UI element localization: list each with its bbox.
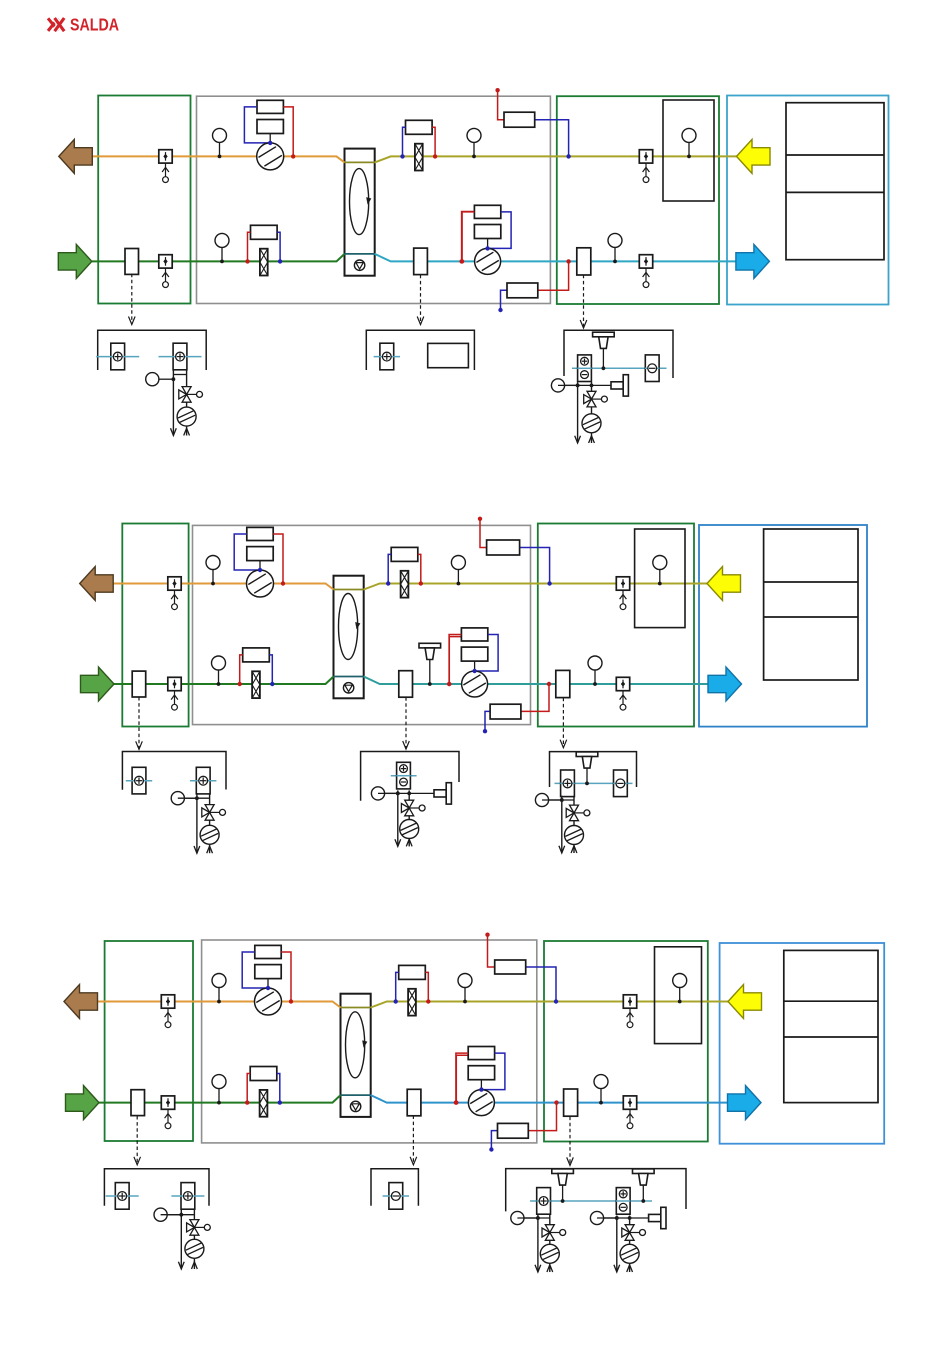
AHU1 unit controls reference arrow (417, 275, 424, 325)
AHU2 outdoor air arrow (green) (81, 667, 115, 701)
AHU3 supply section box (right, green) (544, 941, 708, 1142)
AHU1 duct line inside heat exchanger (top) (345, 161, 375, 163)
AHU2 cooler pipe junction dots (396, 792, 411, 796)
AHU3 supply coil feed wire (red) (456, 1055, 468, 1102)
AHU1 room-side section box (blue) (727, 96, 889, 305)
AHU3 outdoor air temperature sensor (212, 1075, 226, 1105)
AHU1 cooler aux unit (-) (645, 355, 659, 382)
AHU1 supply heating coil with piping (245, 225, 282, 275)
AHU3 duct line inside heat exchanger (bottom) (341, 1094, 371, 1096)
AHU1 supply section duct box (577, 248, 591, 275)
AHU3 heater circuit pipes (161, 1209, 198, 1269)
AHU2 chiller duct sensor (T) (576, 752, 598, 785)
AHU3 heating circuit 3-way valve (542, 1225, 566, 1241)
AHU3 exhaust air duct line (olive) (371, 1002, 729, 1008)
AHU3 extract/exhaust section box (left, green) (105, 941, 193, 1141)
AHU1 control unit (top right) (495, 88, 570, 159)
AHU2 chiller aux unit (-) (613, 770, 627, 797)
AHU3 duct line inside heat exchanger (top) (341, 1007, 371, 1009)
AHU3 supply duct damper box (407, 1089, 421, 1116)
AHU2 cooler circuit bracket (361, 752, 459, 801)
AHU3 extract air arrow (yellow) (728, 985, 762, 1019)
AHU1 cooler circuit supply sensor circle (551, 379, 579, 392)
AHU2 supply section box (right, green) (538, 524, 694, 727)
AHU3 heater circuit 3-way valve (187, 1220, 211, 1236)
AHU2 cooler circuit supply sensor circle (371, 787, 399, 800)
AHU1 cooler circuit pipes (558, 382, 594, 443)
AHU1 duct line inside heat exchanger (bottom) (345, 253, 375, 255)
AHU2 chiller circuit teal line (555, 782, 633, 784)
SALDA logo mark (48, 18, 64, 31)
svg-text:SALDA: SALDA (70, 15, 119, 35)
AHU2 supply fan with speed controller (447, 628, 498, 697)
AHU3 aux unit (-) (383, 1183, 409, 1210)
AHU3 rotor reference arrow (410, 1116, 417, 1165)
AHU3 supply heating coil with piping (245, 1067, 282, 1117)
AHU3 exhaust air temperature sensor (458, 974, 472, 1004)
AHU1 cooler circuit reference arrow (580, 275, 587, 328)
AHU3 heater supply unit (+) (106, 1183, 139, 1210)
AHU3 heating circuit supply sensor circle (511, 1211, 540, 1224)
AHU1 exhaust side coil with piping (400, 120, 437, 170)
AHU3 heater circuit reference arrow (134, 1116, 141, 1165)
AHU1 heater circuit 3-way valve (179, 387, 203, 403)
AHU2 cooler circuit circulation pump (400, 820, 419, 839)
AHU1 extract/exhaust section box (left, green) (98, 96, 190, 304)
AHU2 exhaust air arrow (brown) (80, 567, 114, 601)
AHU1 extract air arrow (yellow) (737, 139, 771, 173)
AHU2 supply coil feed wire (red) (449, 637, 461, 684)
AHU1 outdoor air temperature sensor (215, 233, 229, 263)
AHU2 duct line inside heat exchanger (top) (334, 589, 364, 591)
AHU3 rotary heat exchanger (341, 994, 371, 1117)
AHU2 cooler circuit 3-way valve (401, 800, 425, 816)
AHU3 twin-coil teal line (530, 1200, 652, 1202)
AHU2 extract air arrow (yellow) (707, 567, 741, 601)
AHU1 room unit panel (3 sections) (786, 103, 884, 260)
AHU1 cooler supply unit (+/-) (577, 355, 591, 382)
AHU2 outdoor air duct line (green) (114, 677, 334, 685)
AHU3 supply section damper (top) (623, 995, 636, 1028)
AHU1 extract air temperature sensor (213, 128, 227, 158)
AHU3 cooling circuit pipes (597, 1216, 633, 1273)
AHU1 outdoor intake box (125, 249, 139, 275)
AHU2 chiller circuit bracket (550, 752, 637, 787)
AHU2 chiller circuit pipes (542, 796, 577, 853)
AHU3 cooling circuit 3-way valve (622, 1225, 646, 1241)
AHU2 chiller circuit circulation pump (565, 826, 584, 845)
AHU3 heater circuit supply sensor circle (154, 1208, 183, 1221)
AHU2 extract air duct line (orange, to exhaust) (114, 584, 334, 590)
AHU2 supply section damper (top) (616, 577, 629, 610)
AHU2 supply heating coil with piping (238, 648, 275, 698)
AHU2 control unit (bottom right) (483, 682, 551, 734)
AHU1 cooler circuit teal line (572, 367, 667, 369)
AHU3 duct sensor T1 (552, 1169, 574, 1203)
AHU2 heater circuit reference arrow (136, 697, 143, 749)
AHU2 exhaust air duct line (olive) (364, 584, 708, 590)
AHU3 supply air temperature sensor (594, 1075, 608, 1105)
AHU1 supply duct damper box (414, 248, 428, 275)
AHU2 supply air temperature sensor (588, 656, 602, 686)
AHU1 extract room sensor box (663, 100, 714, 201)
AHU3 cooling circuit supply sensor circle (590, 1211, 618, 1224)
AHU2 exhaust side coil with piping (386, 547, 423, 597)
AHU1 intake damper actuator (159, 255, 172, 288)
AHU1 supply section damper (bottom) (639, 255, 652, 288)
AHU3 heater return unit (+) (171, 1183, 204, 1210)
AHU1 heater circuit pipes (171, 370, 190, 436)
AHU3 intake damper actuator (161, 1096, 174, 1129)
AHU3 control unit (bottom right) (489, 1100, 559, 1151)
AHU3 extract air temperature sensor (212, 974, 226, 1004)
AHU1 extract fan with speed controller (244, 100, 295, 170)
AHU2 supply duct temperature sensor (T) (419, 643, 441, 686)
AHU3 heating pipe junction dot (536, 1216, 540, 1220)
AHU2 heater circuit supply sensor circle (171, 792, 199, 805)
AHU3 twin-coil circuit reference arrow (567, 1117, 574, 1166)
AHU1 rotor controller box (428, 343, 469, 367)
AHU1 extract air duct line (orange, to exhaust) (92, 156, 344, 162)
AHU1 outdoor air duct line (green) (92, 254, 345, 262)
AHU2 chiller pipe junction dot (560, 798, 564, 802)
AHU3 extract room sensor box (655, 947, 702, 1044)
AHU2 outdoor intake box (132, 671, 146, 697)
AHU3 heating circuit pipes (517, 1215, 552, 1272)
AHU1 cooler pipe junction dots (576, 384, 594, 388)
AHU1 exhaust damper actuator (159, 150, 172, 183)
AHU1 unit controls bracket (366, 330, 474, 370)
AHU2 cooler circuit teal line (391, 775, 417, 777)
AHU2 extract air temperature sensor (206, 556, 220, 586)
AHU2 supply duct damper box (399, 671, 413, 698)
AHU3 outdoor air duct line (green) (99, 1095, 341, 1103)
AHU1 exhaust air arrow (brown) (59, 139, 93, 173)
AHU1 supply air duct line (teal) (375, 254, 737, 262)
AHU1 supply air temperature sensor (608, 233, 622, 263)
AHU2 supply air duct line (teal) (364, 677, 708, 685)
AHU2 chiller circuit supply sensor circle (535, 793, 563, 806)
AHU3 cooling immersion sensor (630, 1207, 666, 1228)
AHU3 supply fan with speed controller (454, 1047, 505, 1116)
AHU2 rotary heat exchanger (334, 576, 364, 699)
AHU2 duct line inside heat exchanger (bottom) (334, 676, 364, 678)
AHU1 cooler duct sensor (T) (593, 332, 615, 370)
AHU1 heater circuit supply sensor circle (146, 373, 176, 386)
AHU2 room-side section box (blue) (699, 525, 867, 727)
AHU2 extract/exhaust section box (left, green) (122, 524, 188, 727)
AHU3 twin-coil circuit bracket (506, 1169, 686, 1212)
AHU3 room-side section box (blue) (720, 943, 885, 1144)
AHU2 AHU unit casing box (gray) (193, 525, 531, 724)
AHU2 cooler immersion sensor (409, 783, 451, 804)
AHU3 control unit (top right) (485, 933, 558, 1004)
AHU2 exhaust air temperature sensor (451, 556, 465, 586)
AHU3 exhaust side coil with piping (394, 965, 431, 1015)
AHU2 chiller supply unit (+) (560, 770, 574, 797)
AHU2 supply section duct box (556, 670, 570, 697)
AHU1 heater circuit circulation pump (177, 407, 196, 426)
AHU1 supply fan with speed controller (460, 205, 511, 274)
AHU1 cooler immersion sensor (592, 375, 629, 396)
AHU3 extract air duct line (orange, to exhaust) (98, 1002, 341, 1008)
AHU1 outdoor air arrow (green) (58, 244, 92, 278)
AHU3 room unit panel (3 sections) (784, 950, 878, 1102)
AHU2 exhaust damper actuator (168, 577, 181, 610)
AHU3 exhaust damper actuator (161, 995, 174, 1028)
AHU1 supply air arrow (cyan) (736, 244, 770, 278)
AHU1 rotor control unit (+) (374, 343, 400, 370)
AHU2 intake damper actuator (168, 677, 181, 710)
AHU3 AHU unit casing box (gray) (202, 940, 537, 1143)
AHU3 cooling unit (+/-) (616, 1188, 630, 1215)
AHU1 exhaust air duct line (olive) (375, 156, 737, 162)
AHU2 chiller circuit reference arrow (560, 698, 567, 748)
AHU2 cooler supply unit (+/-) (396, 762, 410, 789)
AHU2 supply section damper (bottom) (616, 677, 629, 710)
AHU3 cooling pipe junction dots (615, 1216, 632, 1220)
AHU1 supply section box (right, green) (557, 96, 719, 304)
AHU2 chiller circuit 3-way valve (566, 805, 590, 821)
AHU1 cooler circuit 3-way valve (584, 391, 608, 407)
AHU2 heater supply unit (+) (126, 767, 152, 794)
AHU1 heater circuit bracket (98, 330, 207, 370)
AHU1 control unit (bottom right) (498, 259, 571, 312)
AHU1 exhaust air temperature sensor (467, 128, 481, 158)
AHU3 supply section damper (bottom) (623, 1096, 636, 1129)
AHU3 heating circuit circulation pump (540, 1244, 559, 1263)
AHU2 cooler circuit pipes (378, 790, 412, 846)
AHU2 heater circuit bracket (122, 752, 226, 790)
AHU3 cooling circuit circulation pump (620, 1244, 639, 1263)
AHU3 supply air duct line (teal) (371, 1095, 728, 1103)
AHU2 cooler circuit reference arrow (403, 697, 410, 749)
AHU3 extract fan with speed controller (242, 945, 293, 1015)
AHU1 supply coil feed wire (red) (462, 212, 475, 262)
AHU1 rotary heat exchanger (345, 149, 375, 276)
AHU2 extract fan with speed controller (234, 527, 285, 597)
AHU3 supply air arrow (cyan) (728, 1086, 762, 1120)
AHU3 heating unit (+) (536, 1188, 550, 1215)
AHU2 room unit panel (3 sections) (764, 529, 858, 680)
AHU2 supply air arrow (cyan) (708, 667, 742, 701)
AHU2 heater circuit circulation pump (200, 825, 219, 844)
AHU1 heater return unit (+) (159, 343, 202, 370)
AHU1 heater circuit reference arrow (129, 274, 136, 325)
AHU2 heater circuit pipes (178, 793, 213, 853)
AHU3 outdoor intake box (131, 1090, 145, 1116)
AHU3 rotor bracket (371, 1169, 418, 1206)
AHU2 outdoor air temperature sensor (212, 656, 226, 686)
AHU2 extract room sensor box (635, 529, 685, 628)
AHU2 heater return unit (+) (190, 767, 216, 794)
AHU3 heater circuit bracket (104, 1169, 209, 1206)
AHU1 AHU unit casing box (gray) (197, 96, 551, 303)
AHU1 supply section damper (top) (639, 150, 652, 183)
AHU3 duct sensor T2 (633, 1169, 655, 1203)
AHU3 outdoor air arrow (green) (66, 1086, 100, 1120)
AHU3 supply section duct box (564, 1089, 578, 1116)
AHU1 cooler circuit circulation pump (582, 414, 601, 433)
AHU1 heater supply unit (+) (96, 343, 139, 370)
AHU1 cooler circuit bracket (564, 330, 673, 378)
AHU3 heater circuit circulation pump (185, 1239, 204, 1258)
AHU2 heater circuit 3-way valve (202, 805, 226, 821)
AHU2 control unit (top right) (478, 517, 552, 586)
AHU3 exhaust air arrow (brown) (64, 985, 98, 1019)
